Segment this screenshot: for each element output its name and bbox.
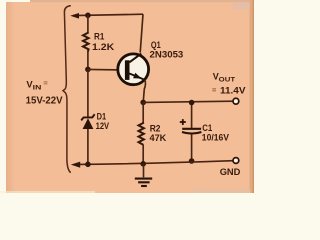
svg-text:OUT: OUT bbox=[219, 76, 235, 83]
label V_OUT = 11.4V bbox=[212, 72, 246, 97]
wire V_OUT rail bbox=[143, 101, 233, 102]
node base junction bbox=[85, 67, 91, 73]
svg-text:10/16V: 10/16V bbox=[202, 132, 229, 142]
terminal GND bbox=[233, 158, 239, 164]
wire collector drop bbox=[140, 14, 143, 52]
node R2 bottom junction bbox=[140, 161, 146, 167]
brace V_IN bracket bbox=[63, 6, 70, 173]
wire base lead bbox=[88, 68, 125, 71]
arrow bottom left (return) bbox=[71, 162, 80, 168]
node top R1 junction bbox=[85, 13, 91, 19]
background panel bbox=[0, 0, 254, 193]
label R2 47K bbox=[150, 123, 167, 143]
resistor R1 bbox=[83, 15, 89, 69]
label Q1 2N3053 bbox=[150, 40, 184, 61]
arrow top left (input) bbox=[70, 13, 79, 19]
svg-text:12V: 12V bbox=[96, 121, 110, 131]
ground bbox=[135, 164, 152, 186]
zener diode D1 bbox=[81, 69, 94, 164]
svg-text:11.4V: 11.4V bbox=[220, 86, 246, 97]
capacitor C1 bbox=[180, 103, 202, 162]
node D1 bottom junction bbox=[85, 162, 91, 168]
label D1 12V bbox=[96, 112, 110, 131]
svg-text:1.2K: 1.2K bbox=[92, 42, 114, 53]
svg-text:2N3053: 2N3053 bbox=[150, 49, 184, 60]
node C1 bottom junction bbox=[189, 158, 195, 164]
transistor Q1 2N3053 bbox=[118, 54, 149, 85]
svg-text:IN: IN bbox=[33, 84, 42, 91]
svg-text:47K: 47K bbox=[150, 132, 167, 143]
label V_IN = 15V-22V bbox=[26, 78, 63, 106]
svg-text:=: = bbox=[212, 85, 217, 94]
svg-text:15V-22V: 15V-22V bbox=[26, 96, 63, 107]
svg-text:Q1: Q1 bbox=[151, 40, 161, 50]
label C1 10/16V bbox=[202, 123, 229, 142]
wire bottom rail bbox=[74, 161, 233, 165]
wire emitter drop bbox=[143, 80, 145, 103]
wire top rail bbox=[73, 14, 143, 15]
svg-text:GND: GND bbox=[220, 166, 241, 177]
svg-text:R1: R1 bbox=[94, 32, 104, 42]
svg-text:=: = bbox=[43, 78, 48, 87]
terminal V_OUT bbox=[233, 98, 239, 104]
resistor R2 bbox=[139, 102, 144, 163]
label GND bbox=[220, 166, 241, 177]
label R1 1.2K bbox=[92, 32, 114, 53]
node emitter / V_OUT rail junction bbox=[140, 100, 146, 106]
node C1 top junction bbox=[189, 100, 195, 106]
